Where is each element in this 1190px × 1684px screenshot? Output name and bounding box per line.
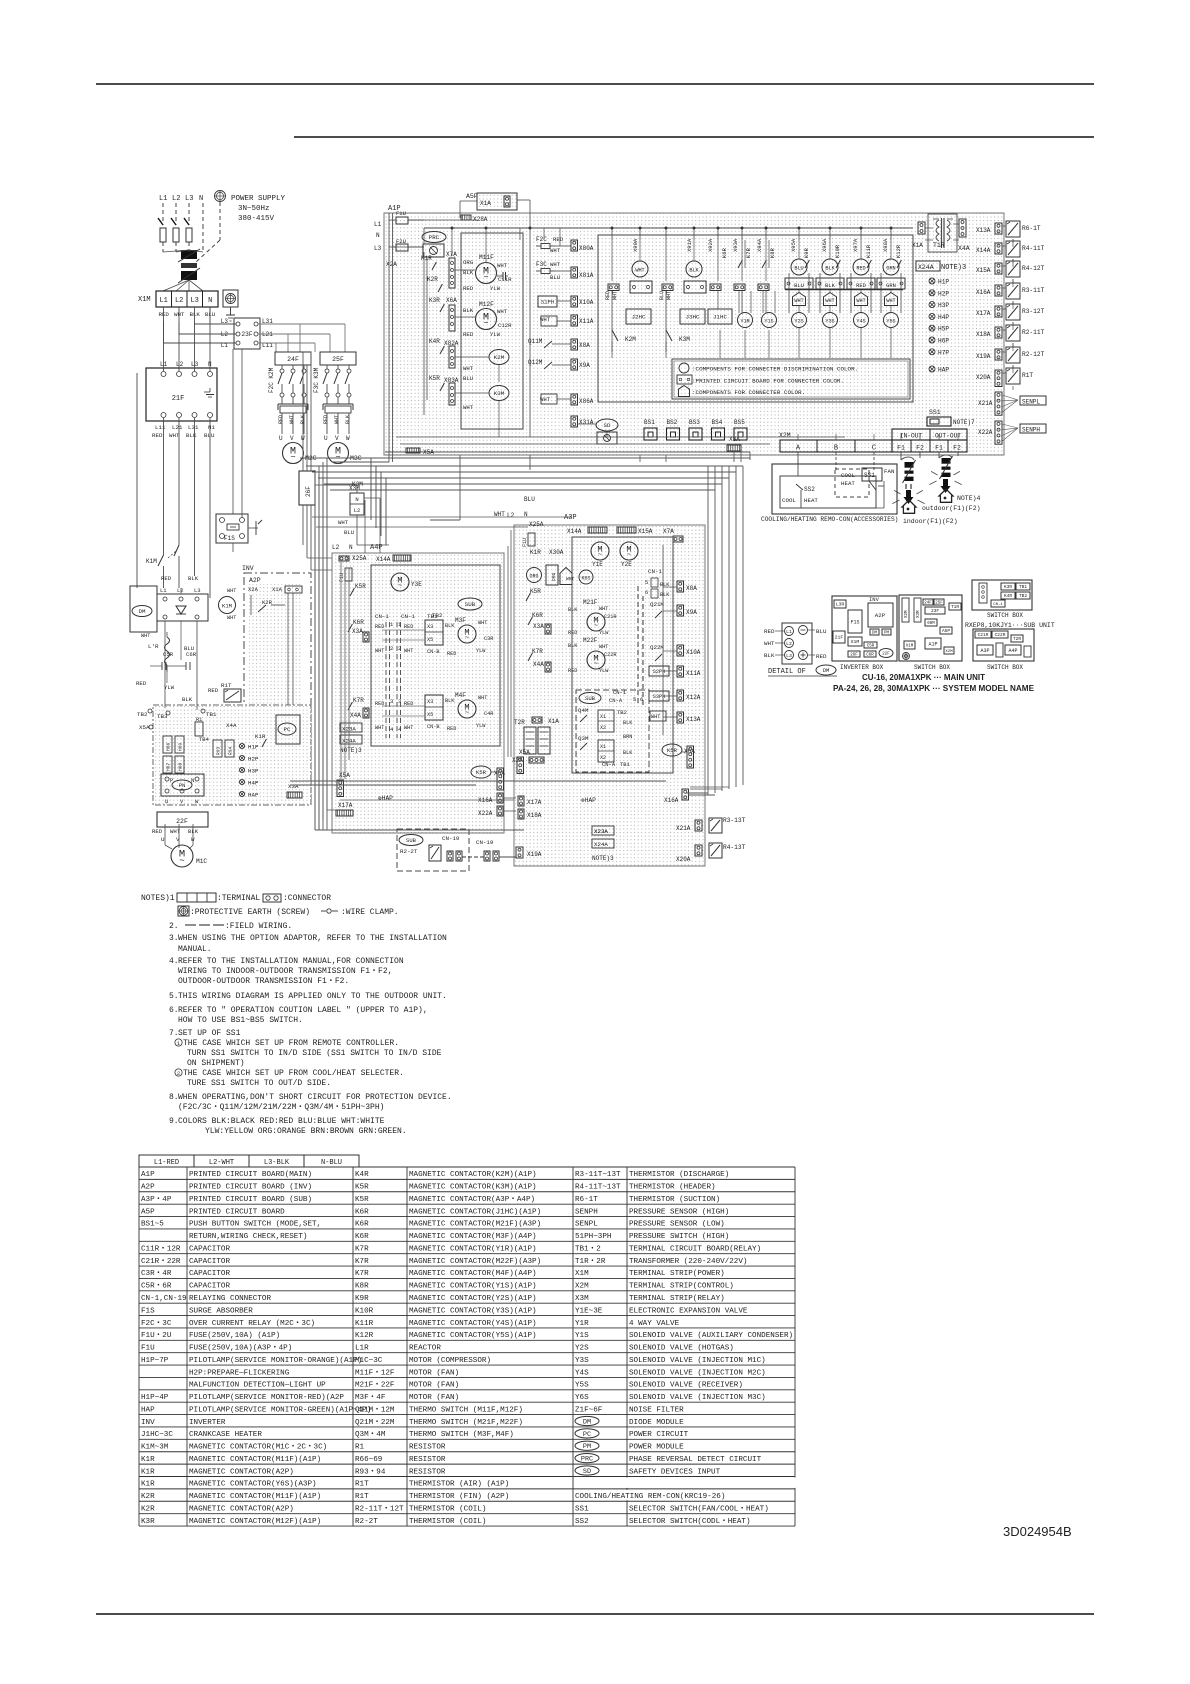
- svg-text:ORG: ORG: [529, 574, 538, 580]
- svg-text:RED: RED: [605, 291, 611, 300]
- svg-text:MAGNETIC CONTACTOR(M11F)(A1P): MAGNETIC CONTACTOR(M11F)(A1P): [189, 1456, 321, 1464]
- svg-text:RED: RED: [136, 680, 147, 687]
- svg-text:N: N: [199, 195, 203, 203]
- svg-text:THERMISTOR (COIL): THERMISTOR (COIL): [409, 1518, 486, 1526]
- svg-text:OVER CURRENT RELAY (M2C・3C): OVER CURRENT RELAY (M2C・3C): [189, 1320, 315, 1328]
- svg-text:X81A: X81A: [579, 272, 594, 279]
- svg-text:A2P: A2P: [141, 1184, 155, 1192]
- svg-text:T1R: T1R: [933, 242, 945, 249]
- svg-text:K5R: K5R: [476, 769, 487, 776]
- svg-text:Y1E: Y1E: [592, 561, 603, 568]
- svg-text:H5P: H5P: [938, 326, 949, 333]
- svg-text:THERMISTOR (FIN) (A2P): THERMISTOR (FIN) (A2P): [409, 1493, 509, 1501]
- svg-text:K1R: K1R: [141, 1468, 155, 1476]
- svg-text:Q21M・22M: Q21M・22M: [355, 1419, 395, 1427]
- svg-text:X2A: X2A: [248, 586, 259, 593]
- svg-text:RED: RED: [161, 575, 172, 582]
- svg-text:BLK: BLK: [189, 311, 200, 318]
- svg-text:T1R・2R: T1R・2R: [575, 1258, 606, 1266]
- svg-text:X91A: X91A: [686, 238, 693, 252]
- svg-text:WHT: WHT: [599, 606, 608, 612]
- svg-text:Q4M: Q4M: [578, 707, 589, 714]
- svg-text:K2R: K2R: [427, 276, 438, 283]
- svg-text:C6R: C6R: [186, 651, 197, 658]
- svg-text:5: 5: [645, 579, 648, 586]
- svg-text:CN-B: CN-B: [427, 724, 439, 730]
- svg-text:YLW: YLW: [599, 668, 609, 674]
- svg-text:X16A: X16A: [664, 797, 679, 804]
- svg-text:L1: L1: [159, 297, 167, 305]
- svg-text:C11R・12R: C11R・12R: [141, 1245, 181, 1253]
- svg-text:H6P: H6P: [938, 338, 949, 345]
- svg-text:WHT: WHT: [651, 714, 660, 720]
- svg-text:BLK: BLK: [182, 696, 193, 703]
- svg-text:WHT: WHT: [566, 576, 575, 582]
- svg-text:C21R: C21R: [604, 614, 616, 620]
- svg-text:6: 6: [645, 589, 648, 596]
- svg-text:L2: L2: [176, 361, 184, 368]
- svg-text:CN-A: CN-A: [609, 697, 623, 704]
- svg-text:YLW: YLW: [599, 630, 609, 636]
- svg-text:~: ~: [465, 635, 469, 643]
- svg-text:H1P~7P: H1P~7P: [141, 1357, 169, 1365]
- svg-text:X5A: X5A: [423, 449, 434, 456]
- svg-text:X23A: X23A: [594, 828, 608, 835]
- svg-text:NOTE)3: NOTE)3: [592, 855, 614, 862]
- svg-text:R4-12T: R4-12T: [1022, 265, 1045, 272]
- svg-text:X10A: X10A: [579, 299, 594, 306]
- svg-text:K7R: K7R: [355, 1245, 369, 1253]
- svg-text:SOLENOID VALVE (INJECTION M2C): SOLENOID VALVE (INJECTION M2C): [629, 1369, 766, 1377]
- svg-text::CONNECTOR: :CONNECTOR: [283, 894, 331, 903]
- svg-text:X4A: X4A: [350, 712, 361, 719]
- svg-text:HOW TO USE BS1~BS5 SWITCH.: HOW TO USE BS1~BS5 SWITCH.: [178, 1016, 303, 1025]
- svg-text:X21A: X21A: [978, 400, 993, 407]
- svg-text:NOTE)3: NOTE)3: [340, 747, 362, 754]
- svg-text:26F: 26F: [305, 486, 312, 497]
- svg-text:WHT: WHT: [540, 396, 551, 403]
- svg-text:BLU: BLU: [204, 432, 215, 439]
- svg-text:indoor(F1)(F2): indoor(F1)(F2): [903, 518, 958, 525]
- svg-text:WHT: WHT: [375, 725, 384, 731]
- svg-text:SENPL: SENPL: [1022, 399, 1040, 406]
- svg-text:X5: X5: [427, 712, 433, 718]
- svg-text:THERMISTOR (AIR) (A1P): THERMISTOR (AIR) (A1P): [409, 1481, 509, 1489]
- svg-text:RED: RED: [323, 415, 329, 424]
- svg-text:M11F・12F: M11F・12F: [355, 1369, 395, 1377]
- svg-text:K3M: K3M: [679, 336, 690, 343]
- svg-text:CN-B: CN-B: [427, 649, 439, 655]
- svg-text:X17A: X17A: [527, 799, 542, 806]
- svg-text:X5A: X5A: [519, 749, 530, 756]
- svg-text:X24A: X24A: [594, 841, 608, 848]
- svg-text:WHT: WHT: [141, 633, 150, 639]
- svg-text:THERMISTOR (HEADER): THERMISTOR (HEADER): [629, 1184, 716, 1192]
- svg-text:N1: N1: [208, 424, 215, 431]
- svg-text:21F: 21F: [172, 395, 185, 403]
- svg-text:X9A: X9A: [579, 362, 590, 369]
- svg-text:X1M: X1M: [575, 1270, 589, 1278]
- svg-text:RESISTOR: RESISTOR: [409, 1444, 446, 1452]
- svg-text:~: ~: [335, 453, 340, 463]
- svg-text:CN-1: CN-1: [375, 613, 389, 620]
- svg-text:INVERTER: INVERTER: [189, 1419, 226, 1427]
- svg-text:X2: X2: [600, 725, 606, 731]
- svg-text:K3M: K3M: [494, 390, 505, 397]
- svg-text:L2: L2: [354, 507, 361, 514]
- svg-text:X2M: X2M: [575, 1283, 589, 1291]
- svg-text:L3: L3: [194, 587, 201, 594]
- svg-text:RED: RED: [278, 415, 284, 424]
- svg-text:WHT: WHT: [612, 291, 618, 300]
- svg-text:MALFUNCTION DETECTION―LIGHT UP: MALFUNCTION DETECTION―LIGHT UP: [189, 1382, 326, 1390]
- svg-text:~: ~: [398, 583, 402, 591]
- svg-text:X16A: X16A: [976, 289, 991, 296]
- svg-text:WHT: WHT: [856, 298, 865, 304]
- svg-text:X1: X1: [600, 714, 606, 720]
- svg-text:Y1R: Y1R: [575, 1320, 589, 1328]
- svg-text:RED: RED: [816, 653, 827, 660]
- svg-text:X13A: X13A: [976, 227, 991, 234]
- svg-text:L1-RED: L1-RED: [154, 1159, 179, 1167]
- svg-text:H67: H67: [166, 762, 172, 771]
- svg-text:K2R: K2R: [141, 1493, 155, 1501]
- svg-text:K7R: K7R: [745, 247, 752, 258]
- svg-text:L3: L3: [185, 195, 193, 203]
- svg-text:M1C~3C: M1C~3C: [355, 1357, 383, 1365]
- svg-text:A5P: A5P: [141, 1208, 155, 1216]
- svg-text:SURGE ABSORBER: SURGE ABSORBER: [189, 1307, 253, 1315]
- svg-text:CAPACITOR: CAPACITOR: [189, 1258, 230, 1266]
- svg-text:A1P: A1P: [141, 1171, 155, 1179]
- svg-text:F2C K2M: F2C K2M: [268, 367, 275, 393]
- svg-text:RXEP8,10KJY1···SUB UNIT: RXEP8,10KJY1···SUB UNIT: [965, 622, 1055, 629]
- svg-text:SOLENOID VALVE (AUXILIARY COND: SOLENOID VALVE (AUXILIARY CONDENSER): [629, 1332, 793, 1340]
- svg-text:X15A: X15A: [976, 267, 991, 274]
- svg-text:L3: L3: [786, 653, 792, 659]
- svg-text:K7R: K7R: [355, 1258, 369, 1266]
- svg-text:Y1E~3E: Y1E~3E: [575, 1307, 603, 1315]
- svg-text:PM: PM: [583, 1443, 591, 1451]
- svg-text:H4P: H4P: [248, 780, 259, 787]
- svg-text:BRN: BRN: [623, 734, 632, 740]
- svg-text:WHT: WHT: [463, 404, 474, 411]
- svg-text:BLK: BLK: [825, 283, 835, 289]
- svg-text:BLK: BLK: [445, 623, 455, 629]
- svg-text:SOLENOID VALVE (RECEIVER): SOLENOID VALVE (RECEIVER): [629, 1382, 743, 1390]
- svg-text:WHT: WHT: [174, 311, 185, 318]
- svg-text:K11R: K11R: [865, 244, 872, 258]
- svg-text:C22R: C22R: [995, 632, 1006, 638]
- svg-text:Q21M: Q21M: [650, 601, 664, 608]
- svg-text:WHT: WHT: [404, 648, 413, 654]
- svg-text:DIODE MODULE: DIODE MODULE: [629, 1419, 684, 1427]
- svg-text:22F: 22F: [176, 818, 188, 825]
- svg-text:POWER MODULE: POWER MODULE: [629, 1444, 684, 1452]
- svg-text:PILOTLAMP(SERVICE MONITOR-ORAN: PILOTLAMP(SERVICE MONITOR-ORANGE)(A1P): [189, 1357, 362, 1365]
- svg-text:K6R: K6R: [353, 619, 364, 626]
- svg-text:X1: X1: [600, 744, 606, 750]
- svg-text:R3-12T: R3-12T: [1022, 308, 1045, 315]
- svg-text:J2HC: J2HC: [632, 314, 646, 321]
- svg-text:X92A: X92A: [707, 238, 714, 252]
- svg-text:X22A: X22A: [478, 810, 493, 817]
- svg-text:WHT: WHT: [334, 415, 340, 424]
- svg-text:K8R: K8R: [355, 1283, 369, 1291]
- svg-text:X17A: X17A: [338, 802, 353, 809]
- svg-text:TERMINAL CIRCUIT BOARD(RELAY): TERMINAL CIRCUIT BOARD(RELAY): [629, 1245, 761, 1253]
- svg-text:C: C: [872, 445, 876, 453]
- svg-text:L3: L3: [190, 297, 198, 305]
- svg-text:X86A: X86A: [579, 398, 594, 405]
- svg-text:M3F: M3F: [455, 617, 466, 624]
- svg-text:MAGNETIC CONTACTOR(A2P): MAGNETIC CONTACTOR(A2P): [189, 1505, 294, 1513]
- svg-text:MAGNETIC CONTACTOR(K3M)(A1P): MAGNETIC CONTACTOR(K3M)(A1P): [409, 1184, 537, 1192]
- svg-text:TB4: TB4: [199, 736, 210, 743]
- svg-text:HAP: HAP: [938, 367, 949, 374]
- svg-text:X94A: X94A: [756, 238, 763, 252]
- svg-text:25F: 25F: [332, 356, 344, 363]
- svg-text:WHT: WHT: [478, 620, 487, 626]
- svg-text:A5P: A5P: [466, 193, 478, 200]
- svg-text:C22R: C22R: [604, 652, 616, 658]
- svg-text:BS3: BS3: [689, 419, 700, 426]
- svg-text:WHT: WHT: [550, 261, 561, 268]
- svg-text:R1T: R1T: [355, 1493, 369, 1501]
- svg-text:THE CASE WHICH SET UP FROM COO: THE CASE WHICH SET UP FROM COOL/HEAT SEL…: [183, 1069, 404, 1078]
- svg-text:R2-2T: R2-2T: [400, 848, 418, 855]
- svg-text:CAPACITOR: CAPACITOR: [189, 1283, 230, 1291]
- svg-text:COOLING/HEATING REMO-CON(ACCES: COOLING/HEATING REMO-CON(ACCESSORIES): [761, 516, 898, 523]
- svg-text:TRANSFORMER (220-240V/22V): TRANSFORMER (220-240V/22V): [629, 1258, 747, 1266]
- svg-text:IN-OUT: IN-OUT: [900, 433, 923, 440]
- svg-text:THERMISTOR (SUCTION): THERMISTOR (SUCTION): [629, 1196, 720, 1204]
- svg-text:R3-13T: R3-13T: [723, 817, 746, 824]
- svg-text:BLU: BLU: [794, 266, 803, 272]
- svg-text:K6R: K6R: [355, 1233, 369, 1241]
- svg-text:SD: SD: [583, 1468, 591, 1476]
- svg-text:U: U: [279, 435, 283, 442]
- svg-text:MAGNETIC CONTACTOR(M22F)(A3P): MAGNETIC CONTACTOR(M22F)(A3P): [409, 1258, 541, 1266]
- svg-text:PC: PC: [583, 1431, 591, 1439]
- svg-text:TERMINAL STRIP(RELAY): TERMINAL STRIP(RELAY): [629, 1295, 725, 1303]
- svg-text:⊗HAP: ⊗HAP: [581, 797, 596, 804]
- svg-text:R94: R94: [228, 746, 234, 755]
- svg-text:PRINTED CIRCUIT BOARD: PRINTED CIRCUIT BOARD: [189, 1208, 285, 1216]
- svg-text:MAGNETIC CONTACTOR(M1C・2C・3C): MAGNETIC CONTACTOR(M1C・2C・3C): [189, 1444, 327, 1452]
- svg-text:REFER TO THE INSTALLATION MANU: REFER TO THE INSTALLATION MANUAL,FOR CON…: [178, 957, 404, 966]
- svg-text:Y2S: Y2S: [794, 319, 803, 325]
- svg-text:Y1S: Y1S: [764, 319, 773, 325]
- svg-text:Y3S: Y3S: [575, 1357, 589, 1365]
- svg-text:outdoor(F1)(F2): outdoor(F1)(F2): [922, 505, 981, 512]
- svg-text:K12R: K12R: [355, 1332, 374, 1340]
- svg-text:A4P: A4P: [370, 544, 383, 552]
- svg-text:BLK: BLK: [623, 750, 633, 756]
- svg-text:TB1: TB1: [206, 711, 217, 718]
- svg-text:MOTOR (FAN): MOTOR (FAN): [409, 1369, 459, 1377]
- svg-text:L2-WHT: L2-WHT: [209, 1159, 234, 1167]
- svg-text:MAGNETIC CONTACTOR(Y3S)(A1P): MAGNETIC CONTACTOR(Y3S)(A1P): [409, 1307, 537, 1315]
- svg-text:BLK: BLK: [764, 652, 775, 659]
- svg-text:N: N: [349, 544, 353, 551]
- svg-text:26F: 26F: [850, 653, 858, 657]
- svg-text:X18A: X18A: [527, 812, 542, 819]
- svg-text:BS1~5: BS1~5: [141, 1221, 164, 1229]
- svg-text:Y4S: Y4S: [856, 319, 865, 325]
- svg-text:CU-16, 20MA1XPK ··· MAIN UNIT: CU-16, 20MA1XPK ··· MAIN UNIT: [862, 672, 986, 682]
- svg-text:H66: H66: [166, 742, 172, 751]
- svg-text:X80A: X80A: [579, 245, 594, 252]
- svg-text:SENPH: SENPH: [1022, 427, 1040, 434]
- svg-text:X19A: X19A: [527, 851, 542, 858]
- svg-text:X21A: X21A: [676, 825, 691, 832]
- svg-text:K1M~3M: K1M~3M: [141, 1444, 169, 1452]
- svg-text:X20A: X20A: [676, 856, 691, 863]
- svg-text:TB2: TB2: [1019, 593, 1027, 599]
- svg-text:X3M: X3M: [917, 610, 921, 618]
- svg-text:R3-11T~13T: R3-11T~13T: [575, 1171, 621, 1179]
- svg-text:3D024954B: 3D024954B: [1003, 1524, 1072, 1539]
- svg-text:SUB: SUB: [406, 837, 417, 844]
- svg-text:RESISTOR: RESISTOR: [409, 1468, 446, 1476]
- svg-text:K5R: K5R: [530, 588, 541, 595]
- svg-text:~: ~: [594, 623, 598, 631]
- svg-text:Y1S: Y1S: [575, 1332, 589, 1340]
- svg-text:NOTE)7: NOTE)7: [953, 419, 975, 426]
- svg-text:POWER SUPPLY: POWER SUPPLY: [231, 195, 286, 203]
- svg-text:TB2: TB2: [432, 612, 443, 619]
- svg-text:X95A: X95A: [790, 238, 797, 252]
- svg-text:R4-11T: R4-11T: [1022, 245, 1045, 252]
- svg-text:RED: RED: [463, 331, 474, 338]
- svg-text:CAPACITOR: CAPACITOR: [189, 1270, 230, 1278]
- svg-text:L2: L2: [786, 641, 792, 647]
- svg-text:TERMINAL STRIP(CONTROL): TERMINAL STRIP(CONTROL): [629, 1283, 734, 1291]
- svg-text::WIRE CLAMP.: :WIRE CLAMP.: [341, 908, 399, 917]
- svg-text:SS2: SS2: [575, 1518, 589, 1526]
- svg-text:DM: DM: [583, 1418, 591, 1426]
- svg-text:MOTOR (FAN): MOTOR (FAN): [409, 1382, 459, 1390]
- svg-text:Y6S: Y6S: [575, 1394, 589, 1402]
- svg-text:24F: 24F: [924, 601, 932, 605]
- svg-text:BLK: BLK: [689, 268, 699, 274]
- svg-text:C21R・22R: C21R・22R: [141, 1258, 181, 1266]
- svg-text:F1U: F1U: [339, 573, 345, 582]
- svg-text:K3R: K3R: [141, 1518, 155, 1526]
- svg-text:CN-1: CN-1: [401, 613, 415, 620]
- svg-text:RETURN,WIRING CHECK,RESET): RETURN,WIRING CHECK,RESET): [189, 1233, 307, 1241]
- svg-text:K6R: K6R: [532, 612, 543, 619]
- svg-text:WHT: WHT: [227, 615, 236, 621]
- svg-text:SWITCH BOX: SWITCH BOX: [914, 664, 950, 671]
- svg-text:TB1: TB1: [1019, 584, 1027, 590]
- svg-text:INV: INV: [242, 565, 254, 572]
- svg-text:YLW:YELLOW ORG:ORANGE BRN:BROW: YLW:YELLOW ORG:ORANGE BRN:BROWN GRN:GREE…: [205, 1127, 407, 1136]
- svg-text:CAPACITOR: CAPACITOR: [189, 1245, 230, 1253]
- svg-text:TURN SS1 SWITCH TO IN/D SIDE (: TURN SS1 SWITCH TO IN/D SIDE (SS1 SWITCH…: [187, 1049, 442, 1058]
- svg-text:WIRING TO INDOOR-OUTDOOR TRANS: WIRING TO INDOOR-OUTDOOR TRANSMISSION F1…: [178, 967, 392, 976]
- svg-text:K1M: K1M: [222, 603, 232, 610]
- svg-text:RESISTOR: RESISTOR: [409, 1456, 446, 1464]
- svg-text:C21R: C21R: [978, 632, 989, 638]
- svg-text:WHT: WHT: [497, 308, 508, 315]
- svg-text:MAGNETIC CONTACTOR(A2P): MAGNETIC CONTACTOR(A2P): [189, 1468, 294, 1476]
- svg-text:W: W: [346, 435, 350, 442]
- svg-text:SS2: SS2: [804, 486, 815, 493]
- svg-text:TB2: TB2: [137, 711, 148, 718]
- svg-text:F1: F1: [897, 445, 905, 452]
- svg-text:PN: PN: [179, 782, 186, 789]
- svg-text:K5R: K5R: [355, 1184, 369, 1192]
- svg-text:PRINTED CIRCUIT BOARD (INV): PRINTED CIRCUIT BOARD (INV): [189, 1184, 312, 1192]
- svg-text:PRESSURE SENSOR (LOW): PRESSURE SENSOR (LOW): [629, 1221, 725, 1229]
- svg-text:K1R: K1R: [141, 1456, 155, 1464]
- svg-text:BLU: BLU: [344, 529, 354, 536]
- svg-text:CN-A: CN-A: [602, 761, 616, 768]
- svg-text:ORG: ORG: [551, 572, 557, 581]
- svg-text:THERMO SWITCH (M21F,M22F): THERMO SWITCH (M21F,M22F): [409, 1419, 523, 1427]
- svg-text:H3P: H3P: [938, 302, 949, 309]
- svg-text:~: ~: [594, 661, 598, 669]
- svg-text:M21F: M21F: [583, 599, 598, 606]
- svg-text:MAGNETIC CONTACTOR(M3F)(A4P): MAGNETIC CONTACTOR(M3F)(A4P): [409, 1233, 537, 1241]
- svg-text:H3P: H3P: [248, 768, 259, 775]
- svg-text:RED: RED: [152, 828, 163, 835]
- svg-text:H2P: H2P: [938, 290, 949, 297]
- svg-text::TERMINAL: :TERMINAL: [217, 894, 260, 903]
- svg-text:L2: L2: [172, 195, 180, 203]
- svg-text:2.: 2.: [169, 922, 179, 931]
- svg-text:MAGNETIC CONTACTOR(Y1R)(A1P): MAGNETIC CONTACTOR(Y1R)(A1P): [409, 1245, 537, 1253]
- svg-text:Y5S: Y5S: [886, 319, 895, 325]
- svg-text:X96A: X96A: [821, 238, 828, 252]
- svg-text::COMPONENTS FOR CONNECTER DISC: :COMPONENTS FOR CONNECTER DISCRIMINATION…: [692, 366, 858, 373]
- svg-text:DM: DM: [139, 608, 146, 615]
- svg-text:ON SHIPMENT): ON SHIPMENT): [187, 1059, 245, 1068]
- svg-text:WHT: WHT: [375, 648, 384, 654]
- svg-text:DM: DM: [872, 631, 878, 635]
- svg-text:SS1: SS1: [575, 1505, 589, 1513]
- svg-text:X2M: X2M: [779, 432, 791, 439]
- svg-text:WHEN USING THE OPTION ADAPTOR,: WHEN USING THE OPTION ADAPTOR, REFER TO …: [178, 934, 447, 943]
- svg-text:PILOTLAMP(SERVICE MONITOR-RED): PILOTLAMP(SERVICE MONITOR-RED)(A2P: [189, 1394, 344, 1402]
- svg-text:INV: INV: [869, 596, 880, 603]
- svg-text:K5R: K5R: [355, 1196, 369, 1204]
- svg-text:BS5: BS5: [734, 419, 745, 426]
- svg-text:BLU: BLU: [659, 291, 665, 300]
- svg-text:PA-24, 26, 28, 30MA1XPK ··· SY: PA-24, 26, 28, 30MA1XPK ··· SYSTEM MODEL…: [833, 683, 1034, 693]
- svg-text:L1R: L1R: [355, 1345, 369, 1353]
- svg-text:21F: 21F: [835, 635, 844, 641]
- svg-text:PILOTLAMP(SERVICE MONITOR-GREE: PILOTLAMP(SERVICE MONITOR-GREEN)(A1P~4P): [189, 1406, 371, 1414]
- svg-text:WHT: WHT: [550, 247, 561, 254]
- svg-text:R4-11T~13T: R4-11T~13T: [575, 1184, 621, 1192]
- svg-text:PRC: PRC: [581, 1456, 593, 1464]
- svg-text:BLK: BLK: [623, 720, 633, 726]
- svg-text:X1M: X1M: [906, 644, 914, 648]
- svg-text:RED: RED: [856, 266, 865, 272]
- svg-text:Y4S: Y4S: [575, 1369, 589, 1377]
- svg-text:N-BLU: N-BLU: [321, 1159, 342, 1167]
- svg-text:K7R: K7R: [353, 697, 364, 704]
- svg-text:X14A: X14A: [976, 247, 991, 254]
- svg-text:C6R: C6R: [866, 653, 874, 657]
- svg-text:X13A: X13A: [686, 716, 701, 723]
- svg-text:F1S: F1S: [224, 535, 235, 542]
- svg-text:X3: X3: [427, 624, 433, 630]
- svg-text:K2M: K2M: [625, 336, 636, 343]
